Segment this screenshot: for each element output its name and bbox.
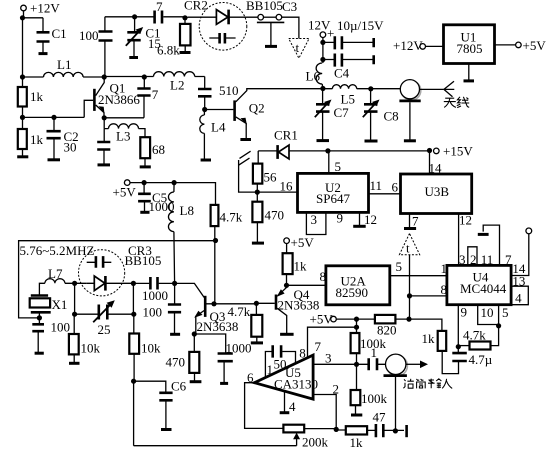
variable capacitor C1 15: [133, 17, 136, 58]
svg-text:470: 470: [166, 355, 186, 370]
svg-text:10k: 10k: [81, 341, 101, 356]
node: [182, 15, 187, 20]
resistor 1k (Q4 pull): [286, 244, 288, 254]
terminal (top right unlabeled): [526, 228, 532, 234]
svg-text:U3B: U3B: [425, 184, 450, 199]
svg-text:1k: 1k: [30, 89, 44, 104]
ground: [161, 428, 172, 431]
svg-text:C8: C8: [384, 109, 399, 124]
svg-text:4.7µ: 4.7µ: [469, 352, 493, 367]
svg-text:2N3638: 2N3638: [278, 298, 320, 313]
pin 5 wire to MC4044 pin 1: [390, 275, 447, 277]
node: [320, 57, 325, 62]
svg-text:C7: C7: [334, 105, 350, 120]
resistor 56: [253, 164, 262, 184]
node: [213, 238, 218, 243]
svg-text:14: 14: [429, 161, 443, 176]
ground: [35, 352, 44, 355]
node: [254, 301, 259, 306]
svg-text:1k: 1k: [30, 132, 44, 147]
pin 2 loop: [468, 247, 477, 266]
node: [172, 180, 177, 185]
resistor 1k (upper left): [18, 87, 27, 107]
ground: [251, 341, 263, 344]
svg-text:5: 5: [502, 305, 509, 320]
ground: [404, 139, 416, 142]
svg-text:L2: L2: [170, 78, 184, 93]
node: [20, 74, 25, 79]
ground U1: [468, 64, 470, 81]
wire antenna down: [239, 160, 258, 192]
pin 7 ground (stepped): [483, 225, 499, 265]
inductor L5: [323, 85, 400, 89]
svg-text:8: 8: [441, 282, 448, 297]
svg-text:2: 2: [333, 382, 340, 397]
resistor 1k (bottom horizontal): [346, 426, 367, 434]
node: [131, 379, 136, 384]
ground: [180, 51, 191, 54]
resistor 1k (lower left): [18, 129, 27, 149]
resistor 10k (left): [73, 314, 75, 334]
inductor L4: [200, 110, 205, 160]
wire +12V rail left: [23, 11, 44, 87]
svg-text:1k: 1k: [350, 435, 364, 450]
node: [354, 325, 359, 330]
node: [393, 428, 398, 433]
wire to test point t: [282, 17, 299, 38]
resistor 68: [140, 137, 150, 158]
capacitor C6: [134, 381, 166, 429]
pin 4 ground: [284, 391, 286, 412]
inductor L3: [104, 124, 145, 137]
node: [142, 74, 147, 79]
wire oscillator frame: [19, 241, 216, 318]
node: [255, 190, 260, 195]
svg-text:BB105: BB105: [125, 253, 162, 268]
svg-text:5: 5: [335, 159, 342, 174]
wire t riser: [409, 255, 411, 319]
node: [20, 115, 25, 120]
capacitor C5 1000: [143, 183, 145, 212]
ground: [351, 414, 362, 417]
node: [354, 362, 359, 367]
ground: [22, 149, 24, 157]
svg-text:100: 100: [143, 305, 163, 320]
svg-text:L7: L7: [48, 266, 63, 281]
IC U4 MC4044: [447, 265, 511, 304]
svg-text:2N3638: 2N3638: [197, 319, 239, 334]
inductor L7: [45, 279, 87, 284]
ground: [201, 159, 211, 162]
resistor 10k (right): [133, 314, 135, 333]
resistor 6.8k: [184, 18, 186, 53]
svg-text:CR1: CR1: [274, 128, 298, 143]
node: [320, 86, 325, 91]
wire mic down: [395, 377, 397, 431]
node: [192, 331, 197, 336]
svg-text:7: 7: [152, 87, 159, 102]
wire to U2A pin 8: [287, 284, 326, 286]
svg-text:+5V: +5V: [113, 185, 137, 200]
svg-text:25: 25: [98, 322, 111, 337]
op-amp U5 CA3130: [254, 355, 313, 399]
svg-text:L1: L1: [57, 57, 71, 72]
node: [102, 74, 107, 79]
crystal X1: [39, 283, 45, 318]
svg-text:4: 4: [515, 291, 522, 306]
svg-text:t: t: [406, 241, 410, 256]
wire 12V feed: [322, 38, 324, 64]
svg-text:3: 3: [311, 212, 318, 227]
ground: [48, 158, 61, 161]
capacitor 510: [204, 77, 206, 110]
ground: [280, 333, 294, 336]
pin 6 wire: [245, 383, 284, 429]
svg-text:3: 3: [325, 351, 332, 366]
capacitor 47: [367, 429, 404, 431]
microphone circle 话筒输入: [387, 356, 407, 376]
svg-text:1k: 1k: [294, 259, 308, 274]
test point triangle t (middle): [399, 234, 419, 255]
ground: [98, 163, 111, 166]
pin 10 loop: [478, 305, 499, 325]
wire: [23, 107, 85, 130]
pin 5 (bottom): [491, 305, 499, 346]
svg-text:MC4044: MC4044: [460, 281, 507, 296]
pin 2 wire: [313, 395, 336, 430]
ground: [365, 140, 378, 143]
terminal +12V: [21, 5, 27, 11]
node: [72, 312, 77, 317]
capacitor (Q1 emitter bypass): [103, 129, 105, 165]
svg-text:9: 9: [337, 211, 344, 226]
svg-text:5: 5: [396, 259, 403, 274]
wire to antenna: [420, 88, 444, 90]
resistor 100k (upper): [351, 333, 360, 353]
pin 7 ground: [409, 214, 411, 228]
ground: [140, 211, 149, 214]
capacitor C2 30: [53, 117, 55, 159]
capacitor 4.7u: [442, 347, 458, 374]
IC U2 SP647: [298, 173, 369, 212]
inductor L8: [168, 183, 174, 284]
svg-text:L3: L3: [116, 129, 130, 144]
ground: [170, 333, 180, 336]
test point triangle t (top): [289, 39, 309, 59]
output stub bar: [405, 425, 408, 437]
svg-text:470: 470: [265, 208, 285, 223]
node: [211, 301, 216, 306]
svg-text:2: 2: [470, 252, 477, 267]
node: [51, 115, 56, 120]
svg-text:50: 50: [274, 357, 287, 372]
node: [202, 107, 207, 112]
ground: [220, 382, 228, 385]
terminal +5V: [516, 42, 522, 48]
svg-text:12: 12: [364, 212, 377, 227]
node: [496, 323, 501, 328]
svg-text:10: 10: [481, 305, 494, 320]
svg-text:t: t: [296, 40, 300, 55]
capacitor C4: [323, 59, 373, 61]
svg-text:+5V: +5V: [523, 38, 547, 53]
node: [172, 281, 177, 286]
inductor L1: [23, 72, 105, 77]
wire VCO tune riser: [214, 241, 216, 304]
terminal +15V: [434, 148, 440, 154]
resistor 470: [252, 202, 262, 223]
variable capacitor 25: [75, 313, 134, 315]
receive antenna slashes: [238, 151, 250, 165]
wire U1 output: [494, 44, 515, 46]
svg-text:100: 100: [51, 320, 71, 335]
capacitor 100 (crystal): [38, 318, 39, 353]
svg-text:47: 47: [373, 410, 387, 425]
pin 11 wire to U3B pin 6: [369, 193, 401, 195]
terminal +5V (U2 area): [284, 238, 290, 244]
svg-text:C4: C4: [334, 66, 350, 81]
node: [102, 115, 107, 120]
node: [284, 283, 289, 288]
terminal BB105 left: [258, 14, 264, 20]
ground: [129, 56, 138, 59]
inductor L6: [316, 63, 323, 89]
node: [132, 14, 137, 19]
capacitor 100 (mid shunt): [174, 283, 176, 334]
svg-text:4: 4: [289, 399, 296, 414]
node: [37, 315, 42, 320]
wire +5V rail mid: [130, 183, 216, 205]
pin 5: [328, 151, 330, 174]
svg-text:4.7k: 4.7k: [220, 210, 243, 225]
svg-text:30: 30: [64, 140, 77, 155]
svg-text:1000: 1000: [226, 341, 252, 356]
svg-text:8: 8: [299, 346, 306, 361]
pin 12 ground: [359, 212, 361, 225]
capacitor 1000 (Q3 emitter): [194, 334, 225, 383]
svg-text:7: 7: [505, 252, 512, 267]
svg-text:10k: 10k: [141, 341, 161, 356]
svg-text:C3: C3: [282, 0, 297, 14]
ground: [252, 242, 264, 245]
svg-text:100k: 100k: [361, 391, 388, 406]
svg-text:2N3866: 2N3866: [98, 92, 140, 107]
ground: [240, 138, 251, 141]
svg-text:C1: C1: [52, 26, 67, 41]
svg-text:11: 11: [481, 252, 494, 267]
svg-text:C6: C6: [171, 379, 187, 394]
svg-text:7: 7: [315, 339, 322, 354]
ground: [39, 52, 48, 55]
pin 9: [457, 305, 459, 347]
wire CR1 corner down: [257, 151, 259, 164]
svg-text:CR2: CR2: [184, 0, 208, 13]
resistor 4.7k (VCO): [211, 205, 219, 226]
svg-text:SP647: SP647: [316, 191, 350, 206]
resistor 4.7k (horizontal): [470, 342, 491, 350]
svg-text:1k: 1k: [422, 331, 436, 346]
svg-text:1000: 1000: [142, 288, 168, 303]
svg-text:7805: 7805: [457, 41, 483, 56]
svg-text:12: 12: [459, 213, 472, 228]
svg-text:10µ/15V: 10µ/15V: [337, 18, 384, 33]
antenna symbol 天线: [444, 81, 454, 97]
antenna feedthrough circle: [402, 81, 421, 100]
svg-text:4.7k: 4.7k: [228, 304, 251, 319]
svg-text:1: 1: [371, 345, 378, 360]
transistor Q2: [205, 109, 234, 111]
wire bottom rail to wiper: [134, 381, 297, 446]
node: [354, 317, 359, 322]
node: [406, 317, 411, 322]
svg-text:L6: L6: [306, 69, 321, 84]
wire to U2 pin 16: [257, 191, 297, 193]
wire: [264, 16, 277, 18]
capacitor 1000 (series into Q3): [133, 282, 174, 284]
node: [131, 281, 136, 286]
svg-text:6: 6: [392, 180, 399, 195]
IC U3B: [401, 174, 472, 214]
ground: [265, 45, 277, 48]
svg-text:6: 6: [247, 370, 254, 385]
svg-text:56: 56: [264, 170, 278, 185]
svg-text:+5V: +5V: [310, 312, 334, 327]
ground: [69, 362, 80, 365]
node: [407, 293, 412, 298]
pins 3 and 9 loop: [306, 212, 326, 234]
resistor 470 (Q3 emitter): [193, 334, 195, 352]
node: [72, 281, 77, 286]
node: [320, 40, 325, 45]
wire terminal down to pin 14: [511, 234, 529, 276]
resistor 820: [375, 315, 396, 324]
pin 14: [429, 151, 431, 175]
pin 12 of U3B: [458, 214, 460, 266]
variable capacitor C7: [322, 89, 324, 141]
svg-text:68: 68: [152, 142, 165, 157]
node: [325, 148, 330, 153]
svg-text:+12V: +12V: [393, 38, 423, 53]
svg-text:200k: 200k: [302, 435, 329, 450]
pin 8 wire: [410, 295, 447, 297]
variable capacitor C8: [370, 89, 372, 141]
wire +15V rail: [289, 150, 430, 152]
svg-text:L8: L8: [180, 203, 194, 218]
svg-text:Q2: Q2: [249, 101, 265, 116]
capacitor C1: [42, 18, 44, 54]
ground: [190, 380, 202, 383]
svg-text:X1: X1: [52, 297, 68, 312]
inductor L2: [104, 72, 205, 77]
wire top rail: [105, 16, 154, 18]
transistor Q1 2N3866: [84, 100, 93, 117]
svg-text:3: 3: [459, 252, 466, 267]
capacitor 1 (mic coupling): [313, 363, 385, 365]
svg-text:510: 510: [219, 83, 239, 98]
capacitor 7 (at Q1 collector): [143, 77, 145, 118]
svg-text:+12V: +12V: [30, 1, 60, 16]
svg-text:+15V: +15V: [443, 144, 473, 159]
svg-text:11: 11: [370, 178, 383, 193]
terminal +5V (left mid): [124, 180, 130, 186]
svg-text:5.76~5.2MHZ: 5.76~5.2MHZ: [20, 243, 95, 258]
node: [131, 312, 136, 317]
svg-text:4.7k: 4.7k: [463, 328, 486, 343]
resistor 1k (vertical right): [438, 331, 447, 351]
ground: [317, 139, 330, 142]
wire op-amp pin7 feed: [308, 319, 357, 357]
svg-text:L4: L4: [211, 120, 226, 135]
svg-text:9: 9: [461, 305, 468, 320]
node: [427, 148, 432, 153]
ground: [140, 165, 151, 168]
node: [142, 180, 147, 185]
IC U2A 82590: [326, 266, 390, 305]
svg-text:CA3130: CA3130: [274, 377, 318, 392]
svg-text:1: 1: [267, 362, 274, 377]
wire emitter row: [104, 118, 144, 129]
svg-text:100: 100: [79, 28, 99, 43]
svg-text:16: 16: [280, 179, 294, 194]
svg-text:+5V: +5V: [291, 235, 315, 250]
node: [20, 15, 25, 20]
resistor 100k (lower): [356, 364, 358, 390]
node: [456, 344, 461, 349]
svg-text:82590: 82590: [336, 285, 369, 300]
transistor Q4 2N3638: [256, 302, 274, 304]
svg-text:7: 7: [412, 214, 419, 229]
node: [334, 427, 339, 432]
transistor Q3 2N3638: [175, 283, 205, 297]
wire +5V row: [336, 318, 409, 320]
capacitor 50 (pins 1-8): [265, 352, 295, 378]
svg-text:6.8k: 6.8k: [157, 43, 180, 58]
svg-text:BB105: BB105: [246, 0, 283, 13]
svg-text:+: +: [327, 26, 334, 41]
node: [368, 86, 373, 91]
wire pot right: [304, 429, 346, 430]
terminal BB105 right: [276, 14, 282, 20]
potentiometer 200k: [283, 425, 304, 433]
wire varactor bias riser: [75, 283, 134, 314]
